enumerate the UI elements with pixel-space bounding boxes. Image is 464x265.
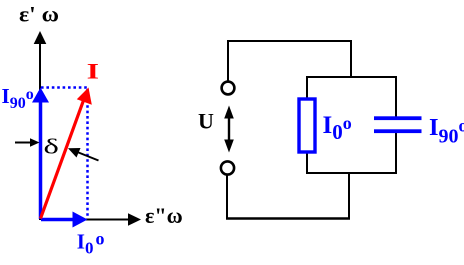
svg-text:δ: δ: [44, 135, 59, 158]
svg-text:I: I: [87, 59, 99, 83]
svg-text:ε' ω: ε' ω: [19, 2, 59, 26]
svg-text:U: U: [198, 109, 214, 134]
svg-text:ε"ω: ε"ω: [145, 203, 183, 228]
